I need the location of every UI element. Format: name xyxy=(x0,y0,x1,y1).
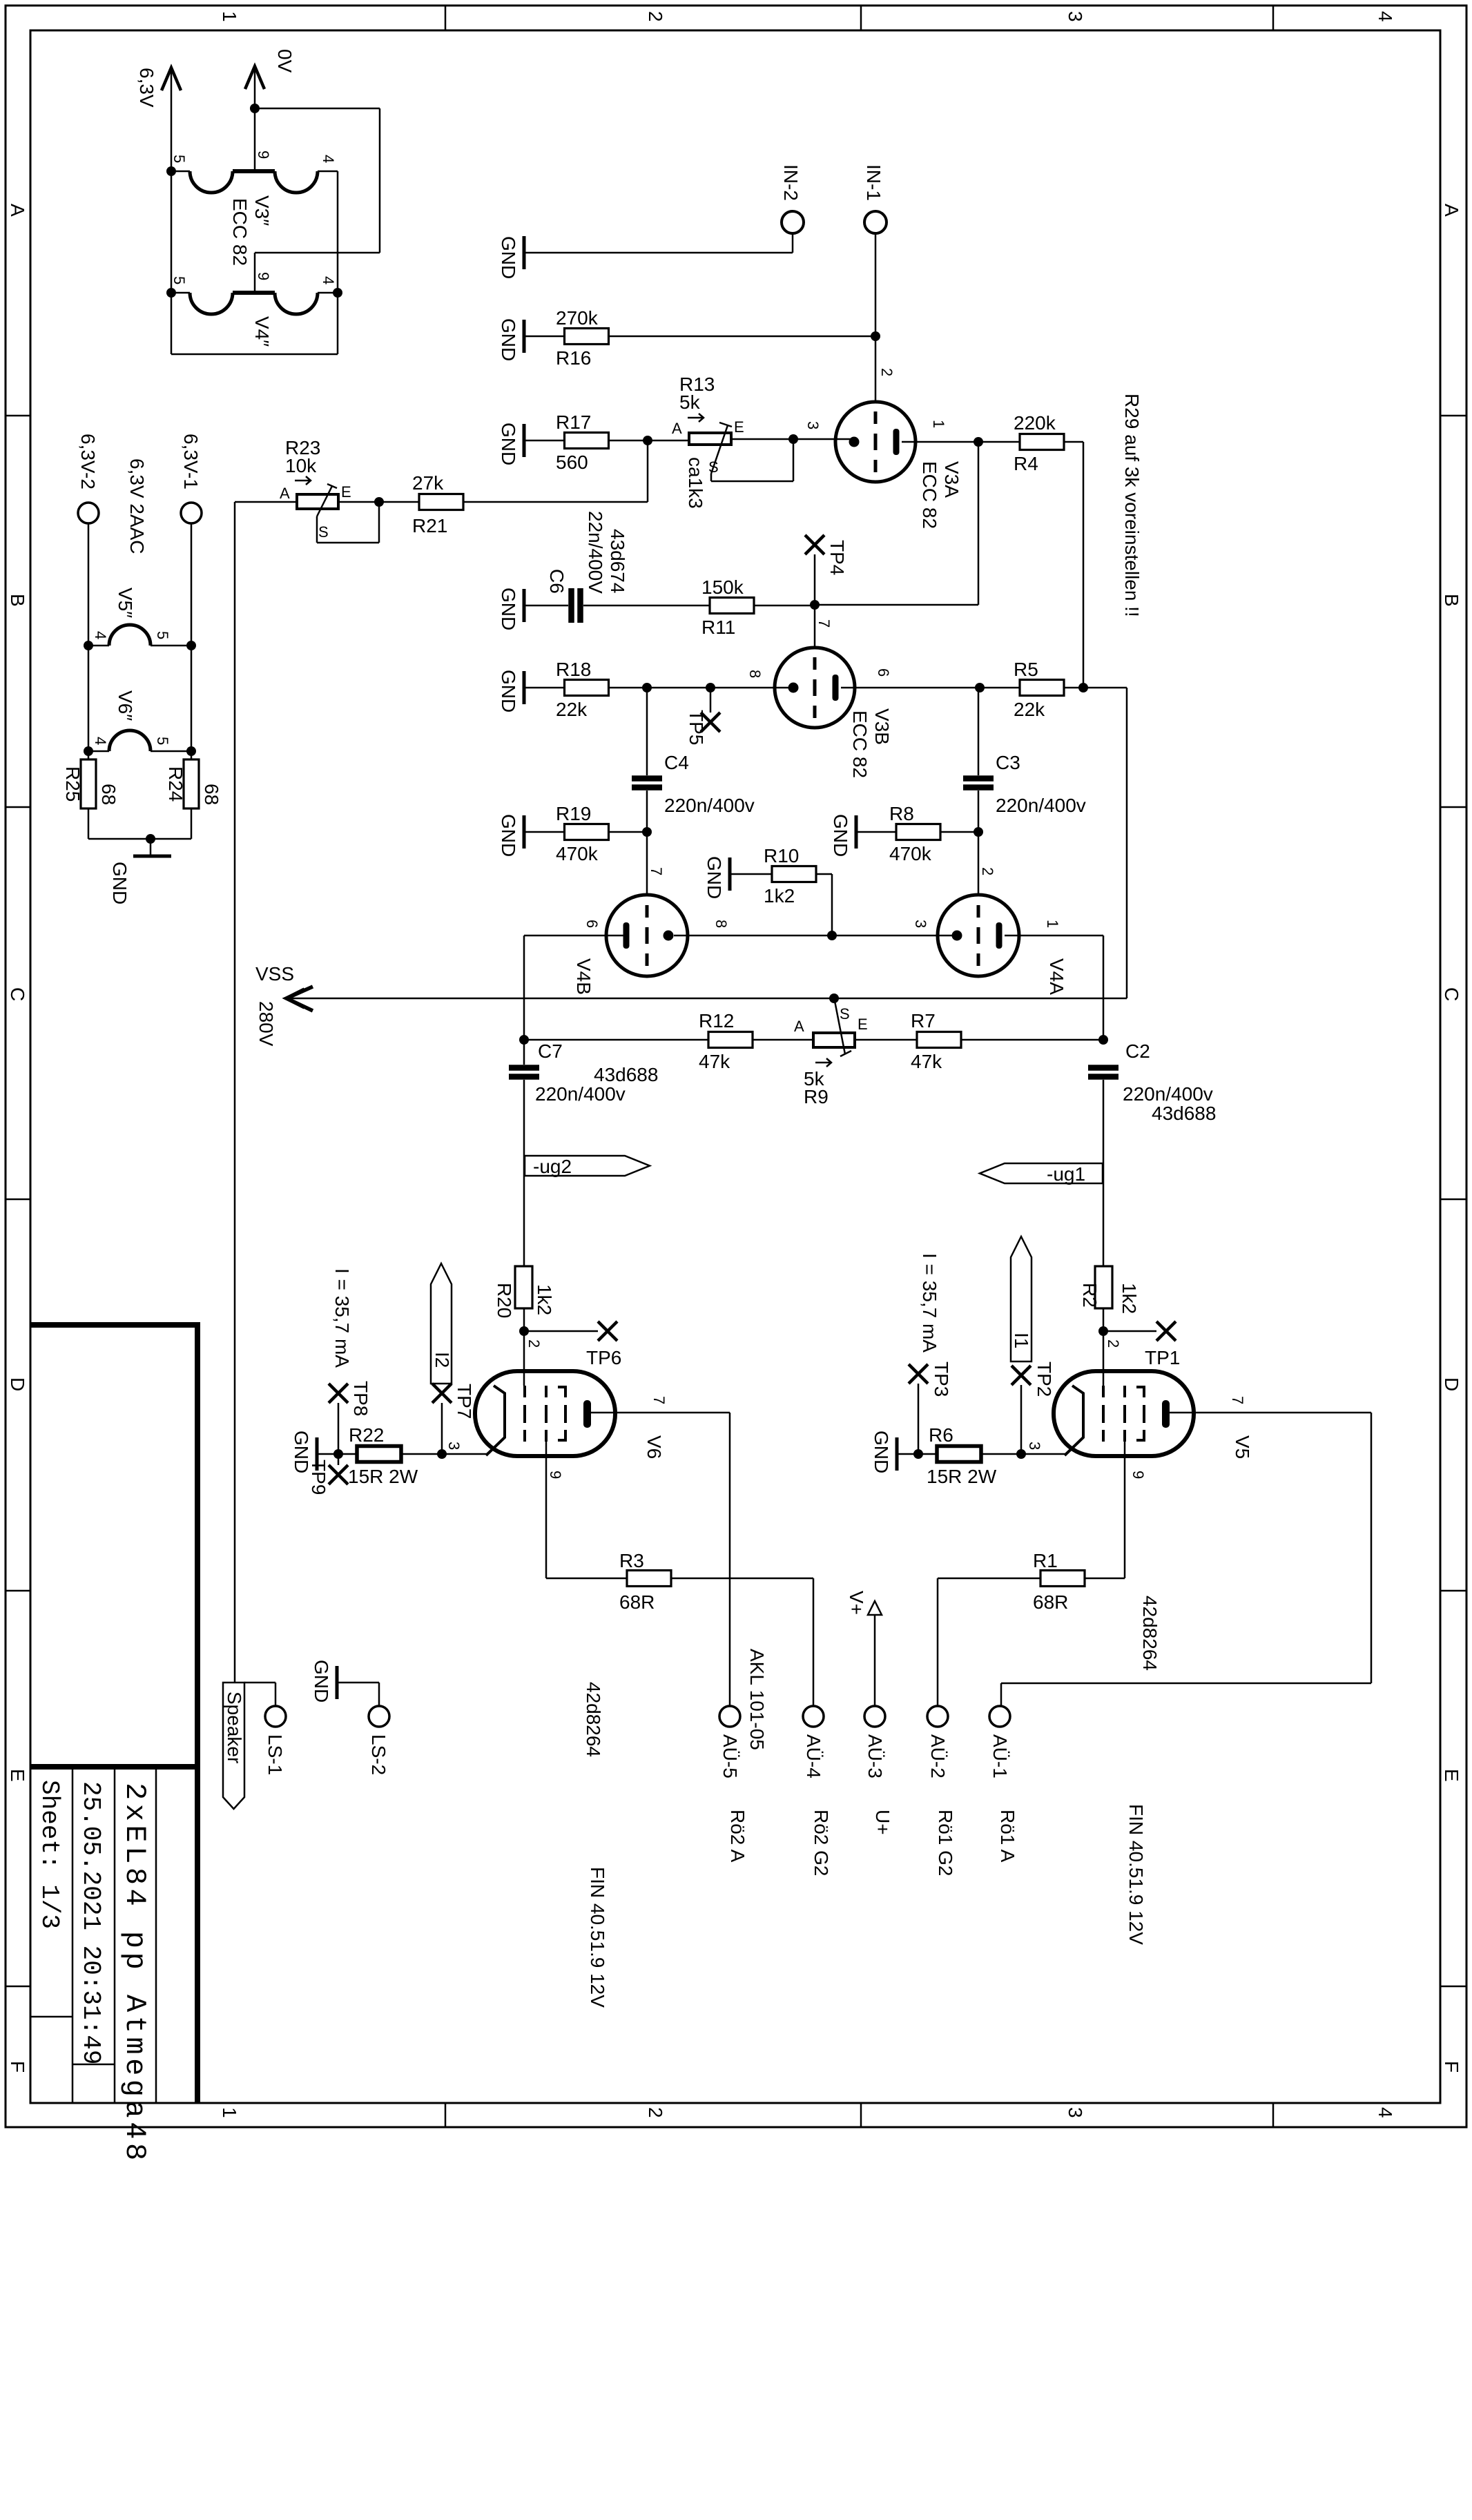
svg-text:5: 5 xyxy=(154,631,171,639)
wire V5 pin9 to R1 xyxy=(1084,1578,1125,1580)
node R4/R5 xyxy=(1078,683,1088,692)
svg-text:1k2: 1k2 xyxy=(764,885,795,907)
wire R10 to cathode net xyxy=(815,873,832,875)
svg-text:R7: R7 xyxy=(911,1010,936,1031)
svg-text:15R 2W: 15R 2W xyxy=(927,1466,997,1487)
wire R20 to grid node xyxy=(523,1308,525,1331)
resistor R20 1k2 xyxy=(515,1266,532,1308)
wire C7 node to R12 xyxy=(524,1039,708,1041)
svg-text:4: 4 xyxy=(92,631,109,639)
ground R6 xyxy=(895,1437,899,1471)
svg-text:TP6: TP6 xyxy=(586,1347,621,1368)
node V3A anode/R4 xyxy=(974,437,983,447)
svg-text:C2: C2 xyxy=(1125,1040,1150,1062)
svg-text:Rö2 A: Rö2 A xyxy=(727,1810,748,1863)
testpoint TP6 xyxy=(524,1330,598,1332)
svg-text:GND: GND xyxy=(498,814,519,857)
wire R2 to grid node xyxy=(1103,1308,1105,1331)
node C2 branch xyxy=(1098,1035,1108,1045)
power arrow VSS 280V xyxy=(290,998,1127,1000)
svg-text:GND: GND xyxy=(311,1660,332,1703)
wire R6 right xyxy=(980,1453,1021,1455)
wire C3 to R8 node xyxy=(978,791,980,832)
wire V5 anode pin7 xyxy=(1170,1412,1371,1414)
node V5" pin4 xyxy=(84,641,93,650)
wire grid pin2 V6 xyxy=(523,1331,525,1386)
svg-text:7: 7 xyxy=(1229,1396,1246,1404)
svg-text:220n/400v: 220n/400v xyxy=(535,1083,626,1105)
node TP4/R11/V3B grid xyxy=(810,600,820,610)
resistor R12 47k xyxy=(708,1032,753,1048)
svg-text:ECC 82: ECC 82 xyxy=(919,461,940,529)
svg-text:I = 35,7 mA: I = 35,7 mA xyxy=(331,1268,353,1368)
node R6/GND xyxy=(913,1449,923,1459)
svg-text:V4B: V4B xyxy=(573,958,594,995)
flag I1 xyxy=(1011,1237,1032,1361)
svg-text:7: 7 xyxy=(815,619,833,628)
svg-text:I = 35,7 mA: I = 35,7 mA xyxy=(919,1253,940,1353)
svg-text:LS-2: LS-2 xyxy=(368,1734,389,1775)
node cathode net xyxy=(827,931,837,940)
wire V4B anode to C7 column xyxy=(523,936,525,1065)
wire 0V detour to V4" pin 9 xyxy=(255,108,380,110)
wire E to R21 xyxy=(338,501,420,503)
svg-text:25.05.2021 20:31:49: 25.05.2021 20:31:49 xyxy=(77,1781,105,2064)
flag Speaker xyxy=(223,1683,244,1809)
wire V6 g2 pin9 xyxy=(545,1442,548,1578)
svg-text:220k: 220k xyxy=(1014,412,1056,434)
node TP5 branch xyxy=(706,683,715,692)
wire V3B node to C4 xyxy=(646,688,648,775)
svg-text:GND: GND xyxy=(498,670,519,713)
svg-text:R16: R16 xyxy=(556,347,591,369)
svg-text:3: 3 xyxy=(1026,1442,1043,1450)
potentiometer R23 10k xyxy=(297,494,338,509)
wire R22 left xyxy=(337,1453,357,1455)
wire R17 to R13 xyxy=(609,440,689,442)
node V5" pin5 xyxy=(186,641,196,650)
ground heater xyxy=(150,839,152,856)
resistor R18 22k xyxy=(565,680,609,696)
svg-text:R9: R9 xyxy=(804,1086,829,1107)
svg-text:-ug1: -ug1 xyxy=(1047,1163,1085,1185)
svg-text:220n/400v: 220n/400v xyxy=(664,795,755,816)
svg-text:TP9: TP9 xyxy=(308,1460,329,1495)
svg-text:U+: U+ xyxy=(872,1810,893,1835)
svg-text:AKL 101-05: AKL 101-05 xyxy=(746,1649,768,1750)
wire R23 A to speaker line xyxy=(235,501,297,503)
svg-text:Rö1 A: Rö1 A xyxy=(997,1810,1018,1863)
ground R22 xyxy=(316,1437,319,1471)
testpoint TP8 xyxy=(338,1403,340,1454)
svg-text:2: 2 xyxy=(645,11,666,22)
svg-text:6: 6 xyxy=(583,920,601,928)
svg-text:R4: R4 xyxy=(1014,453,1038,474)
wire V4A anode pin1 xyxy=(1005,935,1103,937)
svg-text:2: 2 xyxy=(645,2107,666,2118)
svg-text:150k: 150k xyxy=(701,576,744,598)
svg-text:ECC 82: ECC 82 xyxy=(849,710,871,778)
node R22/GND xyxy=(333,1449,343,1459)
wire V4A grid pin2 xyxy=(978,832,980,895)
svg-text:8: 8 xyxy=(713,920,730,928)
svg-text:R11: R11 xyxy=(701,617,735,638)
node C3/R8/V4A grid xyxy=(974,827,983,837)
wire V4A cathode pin3 xyxy=(832,935,957,937)
svg-text:6,3V: 6,3V xyxy=(136,68,157,108)
svg-text:9: 9 xyxy=(255,151,272,159)
svg-text:LS-1: LS-1 xyxy=(264,1734,286,1775)
wire V3A grid-node drop xyxy=(978,442,980,605)
wire R9 to R7 xyxy=(855,1039,918,1041)
ground R10 xyxy=(728,857,732,891)
node TP1 xyxy=(1098,1326,1108,1336)
wire R16 to IN-1 xyxy=(609,336,875,338)
ground LS-2 xyxy=(336,1666,339,1699)
svg-text:R21: R21 xyxy=(412,515,447,536)
flag I2 xyxy=(431,1263,452,1384)
svg-text:43d674: 43d674 xyxy=(607,529,628,593)
svg-text:E: E xyxy=(7,1769,28,1782)
wire R8 to node xyxy=(940,831,978,833)
wire R7 to C2 node xyxy=(960,1039,1103,1041)
svg-text:6,3V 2AAC: 6,3V 2AAC xyxy=(126,458,148,554)
wire grid pin2 V5 xyxy=(1103,1331,1105,1386)
heater supply arrow 0V xyxy=(254,65,256,171)
wire V4B cathode pin8 xyxy=(674,935,832,937)
resistor R24 68 xyxy=(184,759,199,808)
node C4/R19/V4B grid xyxy=(642,827,652,837)
terminal 6,3V-2 xyxy=(78,503,99,523)
svg-text:TP7: TP7 xyxy=(454,1384,475,1419)
heater V5" EL84 xyxy=(88,645,109,647)
svg-text:R19: R19 xyxy=(556,803,591,824)
wire R6 left xyxy=(918,1453,938,1455)
svg-text:R1: R1 xyxy=(1033,1550,1058,1571)
svg-text:F: F xyxy=(7,2061,28,2073)
svg-text:9: 9 xyxy=(255,272,272,280)
wire speaker feedback (long vertical) xyxy=(234,502,236,1683)
testpoint TP3 xyxy=(918,1384,920,1454)
svg-text:V5: V5 xyxy=(1232,1435,1253,1459)
svg-text:3: 3 xyxy=(912,920,929,928)
node IN-1/R16 xyxy=(871,331,880,341)
node V3" pin5 xyxy=(166,166,176,176)
capacitor C4 220n/400v xyxy=(632,775,662,782)
svg-text:E: E xyxy=(858,1016,868,1033)
svg-text:TP4: TP4 xyxy=(826,540,848,575)
terminal AÜ-4 xyxy=(803,1706,824,1727)
triode V3A ECC 82 xyxy=(835,402,916,482)
svg-text:AÜ-5: AÜ-5 xyxy=(719,1734,741,1778)
wire V6 anode pin7 xyxy=(591,1412,730,1414)
svg-text:AÜ-1: AÜ-1 xyxy=(989,1734,1011,1778)
wire V3B grid pin7 xyxy=(814,605,816,648)
svg-text:2: 2 xyxy=(979,867,996,875)
svg-text:A: A xyxy=(794,1018,804,1035)
svg-text:V3B: V3B xyxy=(871,708,893,745)
svg-text:A: A xyxy=(280,485,290,502)
svg-text:68R: 68R xyxy=(619,1591,655,1613)
wire R25/R24 to GND xyxy=(88,808,90,839)
wire V3A anode to R4 xyxy=(902,441,1020,443)
wire R23 S to E xyxy=(316,516,318,543)
net flag -ug1 xyxy=(980,1163,1103,1183)
resistor R22 15R 2W xyxy=(357,1446,401,1462)
svg-text:FIN 40.51.9 12V: FIN 40.51.9 12V xyxy=(587,1867,608,2008)
node C4 branch xyxy=(642,683,652,692)
terminal LS-2 xyxy=(369,1706,389,1727)
svg-text:B: B xyxy=(1441,594,1462,607)
svg-text:2xEL84 pp Atmega48: 2xEL84 pp Atmega48 xyxy=(118,1783,151,2164)
svg-text:I1: I1 xyxy=(1011,1332,1032,1348)
wire R11 to node xyxy=(753,605,815,607)
wire V6 pin9 to R3 xyxy=(546,1578,628,1580)
terminal AÜ-3 xyxy=(864,1706,885,1727)
wire V3B anode to R5 xyxy=(841,687,1020,689)
ground R17 xyxy=(523,424,526,457)
svg-text:D: D xyxy=(1441,1377,1462,1391)
node V6 cathode xyxy=(437,1449,447,1459)
svg-text:Sheet: 1/3: Sheet: 1/3 xyxy=(35,1780,64,1929)
svg-text:V6″: V6″ xyxy=(115,690,136,721)
svg-text:R29 auf 3k voreinstellen !!: R29 auf 3k voreinstellen !! xyxy=(1121,394,1143,617)
triode V4B ECC 82 xyxy=(606,895,688,976)
wire node to V3A cathode xyxy=(793,438,854,440)
svg-text:10k: 10k xyxy=(285,455,317,476)
svg-text:VSS: VSS xyxy=(255,963,294,985)
wire C7 down to -ug2 / R20 xyxy=(523,1080,525,1266)
node V4" pin4 xyxy=(333,288,342,298)
wire C4 to R19 node xyxy=(646,791,648,832)
svg-text:TP8: TP8 xyxy=(350,1381,371,1416)
svg-text:FIN 40.51.9 12V: FIN 40.51.9 12V xyxy=(1125,1804,1147,1945)
svg-text:1: 1 xyxy=(930,420,947,428)
svg-text:S: S xyxy=(708,458,719,476)
svg-text:5k: 5k xyxy=(679,391,701,413)
svg-text:43d688: 43d688 xyxy=(594,1064,658,1085)
wire R19 to node xyxy=(609,831,647,833)
svg-text:C4: C4 xyxy=(664,752,689,773)
svg-text:9: 9 xyxy=(547,1471,564,1479)
svg-text:8: 8 xyxy=(746,670,764,678)
ground C6 xyxy=(523,589,526,622)
svg-text:Rö1 G2: Rö1 G2 xyxy=(935,1810,956,1877)
wire R5 right / VSS riser xyxy=(1063,687,1127,689)
svg-text:R24: R24 xyxy=(165,766,186,802)
svg-text:22k: 22k xyxy=(556,699,588,720)
wire R4 right to R5 node xyxy=(1063,441,1083,443)
svg-text:7: 7 xyxy=(650,1396,668,1404)
svg-text:470k: 470k xyxy=(556,843,599,864)
svg-text:2: 2 xyxy=(1105,1339,1122,1348)
svg-text:5: 5 xyxy=(171,155,188,163)
svg-text:I2: I2 xyxy=(432,1352,453,1368)
svg-text:Speaker: Speaker xyxy=(224,1692,245,1763)
svg-text:3: 3 xyxy=(1065,11,1086,22)
svg-text:S: S xyxy=(840,1005,850,1022)
svg-text:C3: C3 xyxy=(996,752,1020,773)
resistor R7 47k xyxy=(917,1032,961,1048)
wire R12 to R9 xyxy=(753,1039,813,1041)
resistor R17 560 xyxy=(565,433,609,449)
svg-text:E: E xyxy=(734,418,744,436)
svg-text:9: 9 xyxy=(1130,1471,1147,1479)
svg-text:4: 4 xyxy=(320,276,337,284)
heater V3" ECC 82 xyxy=(171,171,190,173)
node TP6 xyxy=(519,1326,529,1336)
svg-text:270k: 270k xyxy=(556,307,599,329)
svg-text:TP3: TP3 xyxy=(931,1361,952,1397)
svg-text:470k: 470k xyxy=(889,843,932,864)
wire R13 E xyxy=(731,438,793,440)
terminal AÜ-5 xyxy=(719,1706,740,1727)
wire R5 node to C3 xyxy=(978,688,980,775)
svg-text:1k2: 1k2 xyxy=(1118,1283,1140,1314)
svg-text:280V: 280V xyxy=(255,1001,277,1047)
heater V6" EL84 xyxy=(88,750,109,753)
node V4" pin5 xyxy=(166,288,176,298)
resistor R10 1k2 xyxy=(772,866,816,882)
node C3 branch xyxy=(975,683,985,692)
svg-text:220n/400v: 220n/400v xyxy=(1123,1083,1213,1105)
wire R1 to AUE-2 xyxy=(938,1578,1041,1580)
resistor R16 270k xyxy=(565,329,609,345)
svg-text:V3A: V3A xyxy=(941,461,962,498)
svg-text:R12: R12 xyxy=(699,1010,734,1031)
svg-text:0V: 0V xyxy=(274,49,296,73)
resistor R3 68R xyxy=(627,1571,671,1587)
svg-text:V4A: V4A xyxy=(1046,958,1067,995)
resistor R6 15R 2W xyxy=(937,1446,981,1462)
svg-text:GND: GND xyxy=(109,862,130,904)
svg-text:R25: R25 xyxy=(62,766,84,802)
svg-text:IN-2: IN-2 xyxy=(780,164,802,201)
resistor R1 68R xyxy=(1040,1571,1085,1587)
svg-text:68: 68 xyxy=(201,784,222,805)
wire 6,3V-2 down xyxy=(88,523,90,759)
terminal LS-1 xyxy=(265,1706,286,1727)
triode V3B ECC 82 xyxy=(775,648,855,728)
testpoint TP9 xyxy=(338,1454,340,1465)
svg-text:1: 1 xyxy=(219,2107,240,2118)
svg-text:2: 2 xyxy=(525,1339,543,1348)
svg-text:R8: R8 xyxy=(889,803,914,824)
svg-text:42d8264: 42d8264 xyxy=(583,1682,604,1757)
svg-text:R2: R2 xyxy=(1079,1283,1101,1308)
testpoint TP5 xyxy=(710,688,712,713)
wire C2 down to -ug1 / R2 xyxy=(1103,1080,1105,1266)
svg-text:TP1: TP1 xyxy=(1145,1347,1180,1368)
terminal AÜ-1 xyxy=(989,1706,1010,1727)
wire R3 to AUE-4 xyxy=(670,1578,813,1580)
svg-text:C: C xyxy=(7,987,28,1001)
svg-text:C: C xyxy=(1441,987,1462,1001)
svg-text:4: 4 xyxy=(1375,2107,1396,2118)
ground IN-2 xyxy=(523,236,526,269)
svg-text:AÜ-2: AÜ-2 xyxy=(927,1734,949,1778)
svg-text:F: F xyxy=(1441,2061,1462,2073)
svg-text:4: 4 xyxy=(1375,11,1396,22)
svg-text:C6: C6 xyxy=(546,569,568,594)
svg-text:6: 6 xyxy=(875,668,892,677)
wire R22 right xyxy=(401,1453,442,1455)
terminal IN-2 xyxy=(782,211,804,233)
svg-text:GND: GND xyxy=(498,588,519,630)
svg-text:R3: R3 xyxy=(619,1550,644,1571)
svg-text:27k: 27k xyxy=(412,472,444,494)
svg-text:4: 4 xyxy=(92,737,109,745)
svg-text:5: 5 xyxy=(171,276,188,284)
svg-text:GND: GND xyxy=(498,236,519,279)
terminal 6,3V-1 xyxy=(181,503,202,523)
svg-text:2: 2 xyxy=(878,368,895,376)
ground R19 xyxy=(523,815,526,849)
svg-text:A: A xyxy=(7,204,28,217)
ground R8 xyxy=(855,815,858,849)
svg-text:5: 5 xyxy=(154,737,171,745)
svg-text:6,3V-2: 6,3V-2 xyxy=(77,434,99,490)
title block box xyxy=(30,1322,200,1328)
svg-text:S: S xyxy=(318,523,329,541)
svg-text:GND: GND xyxy=(498,318,519,361)
capacitor C7 220n/400v 43d688 xyxy=(509,1065,539,1071)
svg-text:15R 2W: 15R 2W xyxy=(348,1466,418,1487)
svg-text:1: 1 xyxy=(219,11,240,22)
triode V4A ECC 82 xyxy=(938,895,1019,976)
svg-text:3: 3 xyxy=(804,421,822,429)
svg-text:R20: R20 xyxy=(494,1283,515,1318)
svg-text:R18: R18 xyxy=(556,659,591,680)
net flag -ug2 xyxy=(525,1156,650,1176)
node V6" pin4 xyxy=(84,746,93,756)
node R23 E junction xyxy=(374,497,384,507)
svg-text:R5: R5 xyxy=(1014,659,1038,680)
resistor R5 22k xyxy=(1020,680,1064,696)
node heater GND junction xyxy=(146,834,155,844)
wire R13 S to node xyxy=(710,474,713,481)
svg-text:47k: 47k xyxy=(911,1051,942,1072)
svg-text:ECC 82: ECC 82 xyxy=(229,198,251,266)
node R9 wiper on VSS xyxy=(829,994,839,1003)
node R13 E / V3A cathode xyxy=(788,434,798,444)
wire V6 cathode pin3 xyxy=(442,1453,487,1455)
node C7 branch xyxy=(519,1035,529,1045)
capacitor C3 220n/400v xyxy=(963,775,994,782)
svg-text:IN-1: IN-1 xyxy=(863,164,884,201)
wire heater pins 4 chain xyxy=(337,171,339,354)
wire C6 to R11 xyxy=(583,605,710,607)
resistor R8 470k xyxy=(896,824,940,840)
svg-text:R17: R17 xyxy=(556,411,591,433)
svg-text:3: 3 xyxy=(1065,2107,1086,2118)
svg-text:-ug2: -ug2 xyxy=(533,1156,572,1177)
svg-text:E: E xyxy=(1441,1769,1462,1782)
capacitor C6 22n/400V xyxy=(568,588,574,623)
svg-text:V+: V+ xyxy=(846,1591,867,1615)
svg-text:A: A xyxy=(672,420,682,437)
wire R21 to R17/R13 node xyxy=(463,501,648,503)
wire R18 to V3B cathode xyxy=(609,687,793,689)
svg-text:GND: GND xyxy=(498,423,519,465)
wire speaker to LS-1 xyxy=(244,1682,275,1684)
svg-text:4: 4 xyxy=(320,155,337,163)
terminal AÜ-2 xyxy=(927,1706,948,1727)
svg-text:22k: 22k xyxy=(1014,699,1045,720)
ground R16 xyxy=(523,320,526,353)
svg-text:42d8264: 42d8264 xyxy=(1139,1596,1161,1671)
svg-text:220n/400v: 220n/400v xyxy=(996,795,1086,816)
